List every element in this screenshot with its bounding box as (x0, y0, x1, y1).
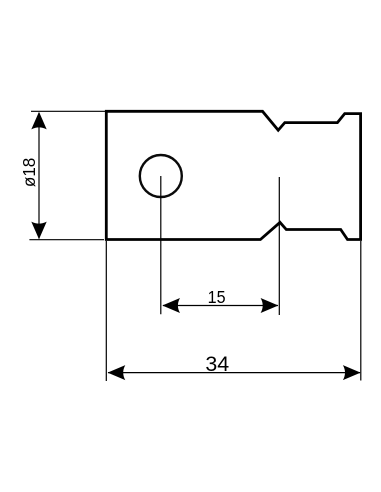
dimension line o18 (38, 113, 40, 239)
arrow 34 left (108, 365, 126, 380)
svg-text:ø18: ø18 (19, 158, 39, 188)
arrow 15 right (261, 298, 279, 313)
extension line from notch (278, 177, 280, 315)
arrow 34 right (343, 365, 361, 380)
extension line right (34) (360, 241, 362, 381)
svg-text:15: 15 (208, 287, 226, 307)
extension line bottom (o18) (29, 239, 104, 241)
part outline (106, 111, 360, 239)
arrow 15 left (162, 298, 180, 313)
svg-text:34: 34 (205, 351, 229, 376)
arrow o18 up (31, 112, 46, 130)
extension line top (o18) (31, 110, 107, 112)
extension line left (34) (105, 241, 107, 381)
hole circle (140, 155, 182, 197)
dimension line 34 (108, 372, 360, 374)
dimension line 15 (163, 305, 278, 307)
arrow o18 down (31, 222, 46, 240)
extension line from hole center (160, 176, 162, 314)
